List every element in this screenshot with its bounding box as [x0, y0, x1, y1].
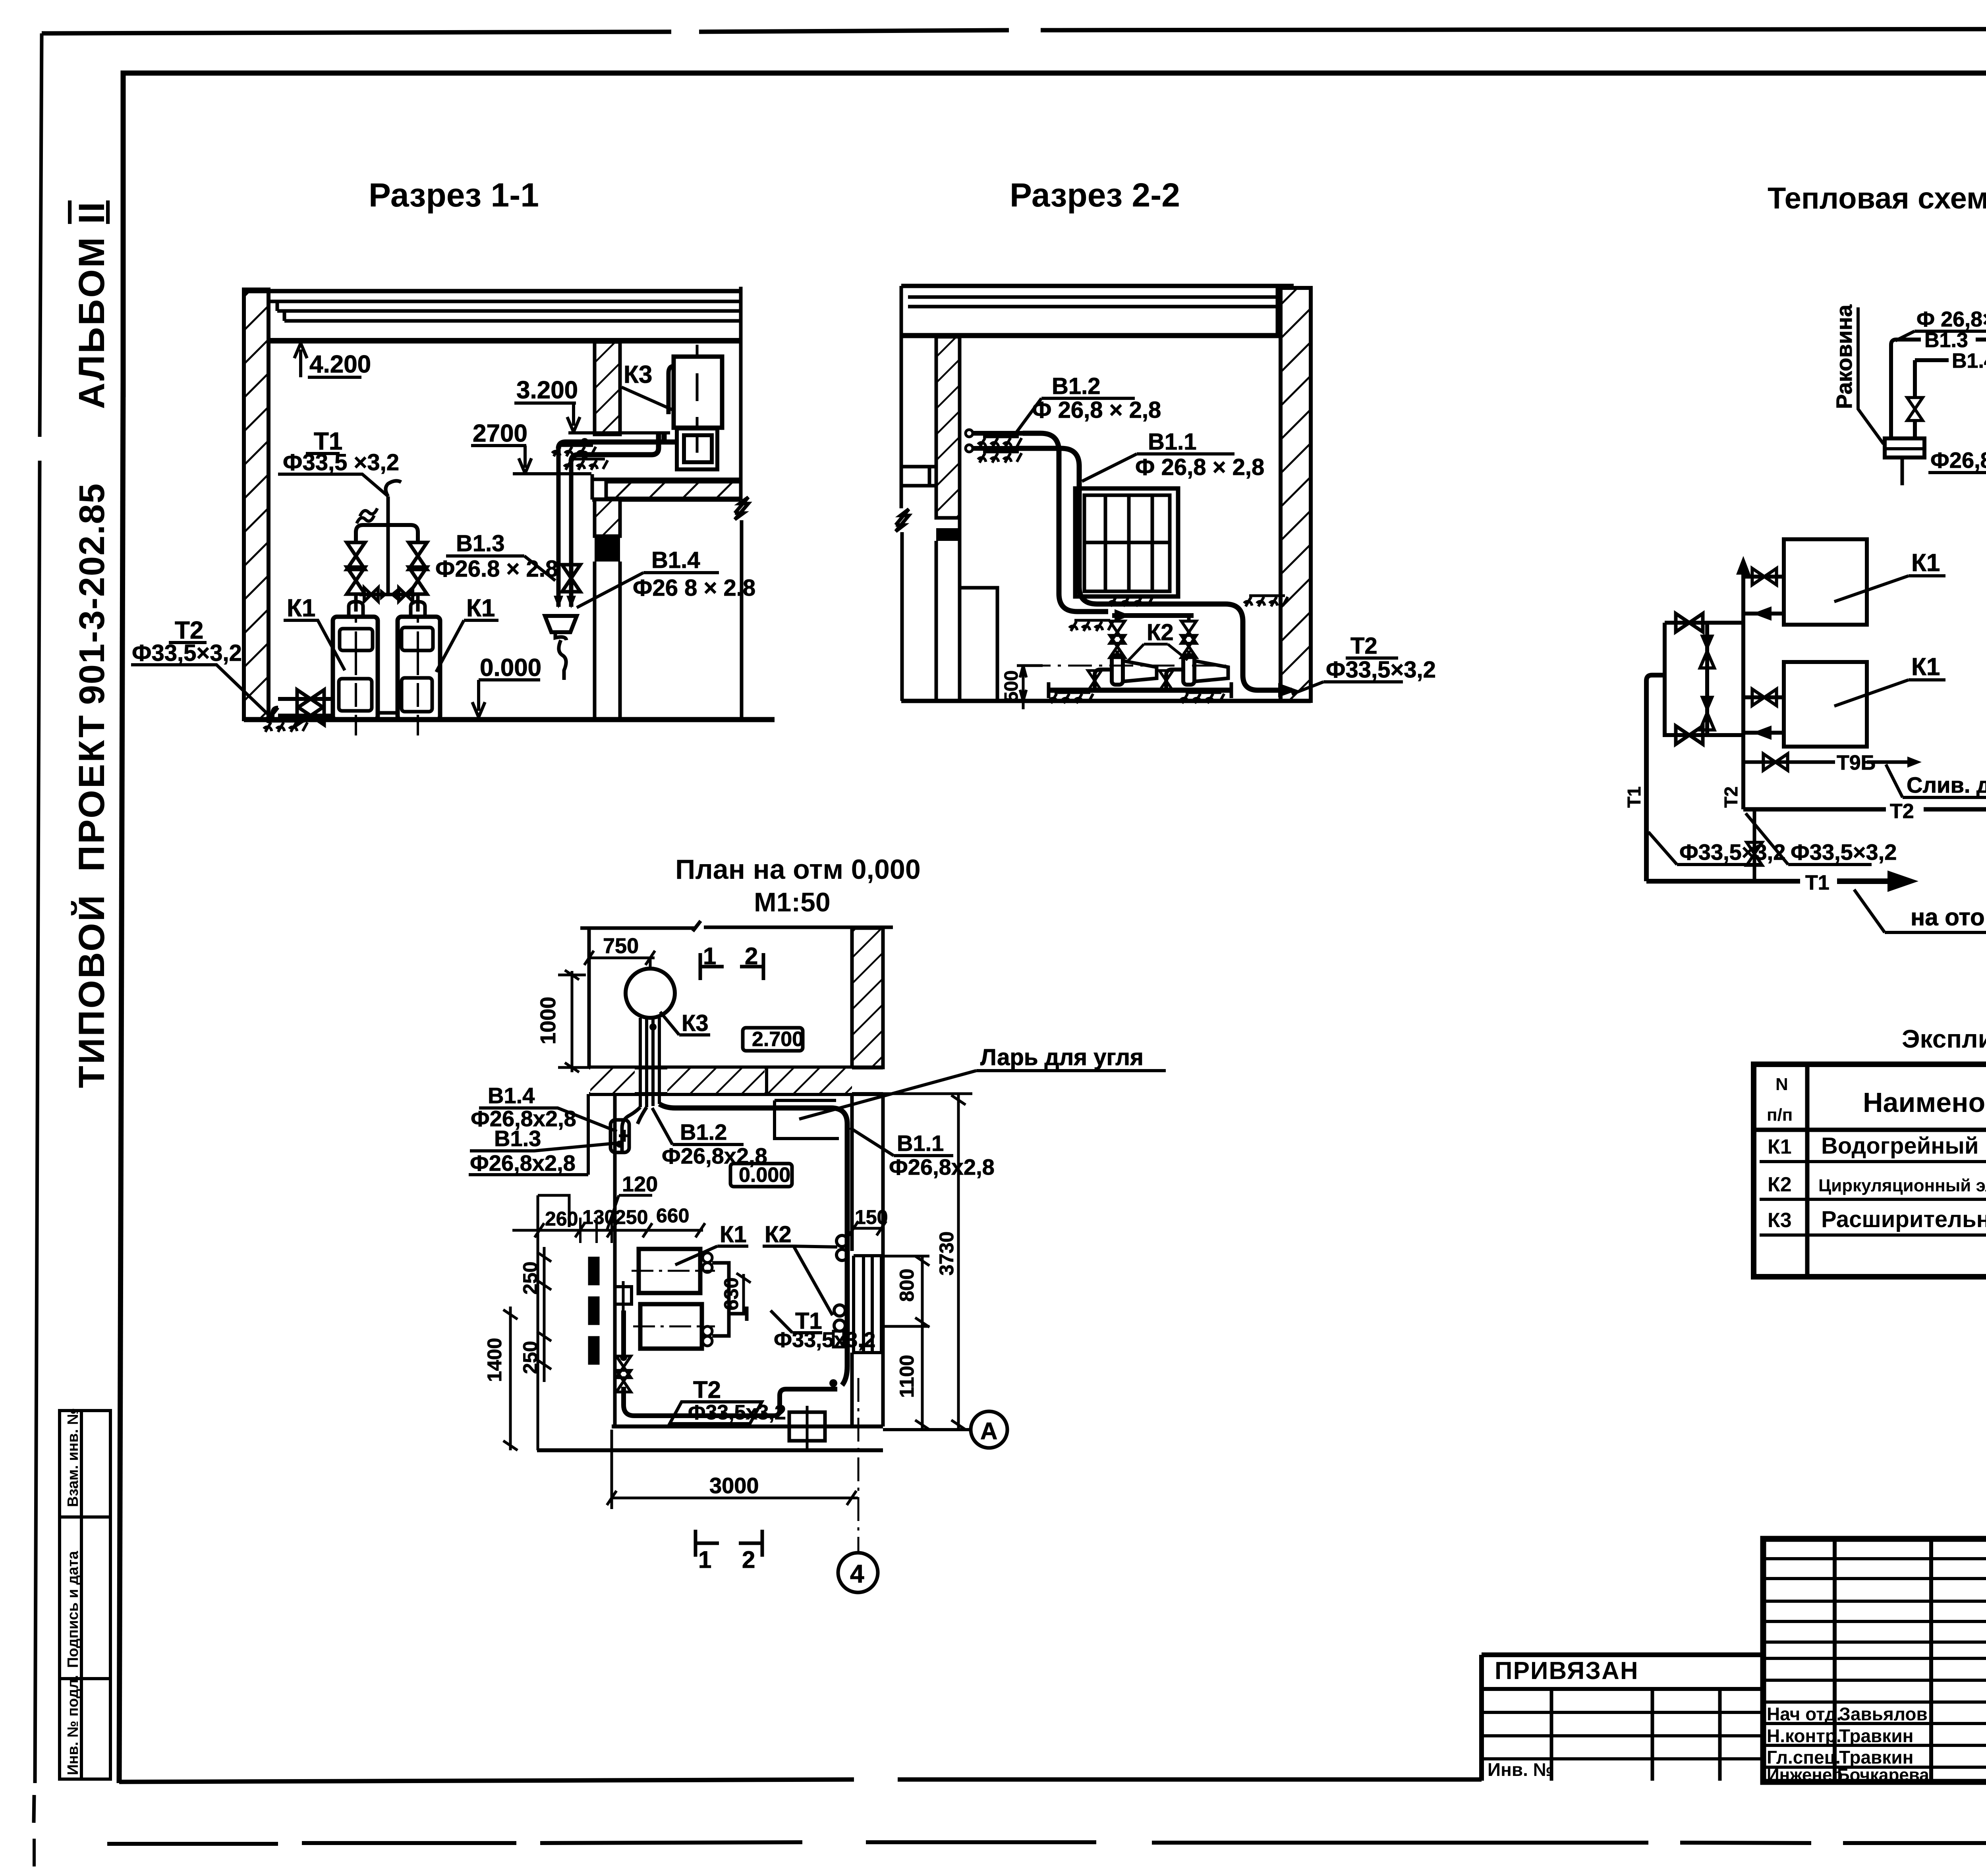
outer border bottom dashed: [107, 1842, 1986, 1844]
svg-text:Раковина: Раковина: [1831, 304, 1857, 409]
cross line with arrow fittings: [359, 593, 415, 596]
svg-text:660: 660: [656, 1204, 689, 1227]
svg-text:на отопление см. черт. ОВ: на отопление см. черт. ОВ: [1911, 904, 1986, 930]
svg-text:В1.2: В1.2: [1052, 373, 1101, 399]
svg-text:Ф33,5 ×3,2: Ф33,5 ×3,2: [283, 450, 399, 475]
svg-text:800: 800: [896, 1269, 918, 1302]
svg-text:Разрез 2-2: Разрез 2-2: [1010, 176, 1180, 214]
coal box: [775, 1100, 839, 1139]
svg-text:К1: К1: [1911, 653, 1940, 681]
svg-text:Т2: Т2: [1350, 633, 1377, 659]
svg-text:К3: К3: [1768, 1209, 1792, 1232]
left column hatch + black: [936, 337, 960, 518]
svg-text:0.000: 0.000: [480, 654, 541, 681]
boilers: [1784, 539, 1867, 625]
main loop pipe B1.1: [659, 1104, 847, 1385]
svg-text:750: 750: [603, 934, 639, 958]
svg-text:А: А: [980, 1418, 997, 1444]
fundament blocks: [588, 1257, 599, 1285]
svg-text:250: 250: [615, 1206, 648, 1228]
inner frame bottom: [119, 1779, 1482, 1782]
horizontal hatched wall band: [589, 1067, 883, 1094]
svg-text:Ф33,5×3,2: Ф33,5×3,2: [132, 640, 242, 666]
upper room left wall line: [587, 928, 591, 1067]
small stamp table bottom left: [60, 1411, 110, 1779]
svg-text:Ф26,8х2,8: Ф26,8х2,8: [470, 1150, 576, 1175]
svg-text:Ларь для угля: Ларь для угля: [980, 1044, 1144, 1070]
svg-text:1000: 1000: [536, 997, 560, 1044]
svg-text:Нач отд.: Нач отд.: [1767, 1704, 1841, 1724]
svg-text:п/п: п/п: [1767, 1105, 1793, 1125]
svg-text:К1: К1: [1911, 549, 1940, 577]
svg-text:1400: 1400: [483, 1338, 506, 1382]
bottom wall: [612, 1424, 883, 1428]
svg-text:Инженер: Инженер: [1767, 1765, 1843, 1785]
B1.1 pipe run: [1018, 448, 1292, 690]
lower column hatch + black band: [595, 500, 620, 536]
right wall hatched: [1281, 288, 1311, 701]
pump 2: [1183, 655, 1194, 685]
svg-text:Ф33,5х3,2: Ф33,5х3,2: [774, 1328, 875, 1352]
sink in plan: [610, 1120, 629, 1152]
svg-text:3000: 3000: [709, 1473, 759, 1498]
svg-text:К2: К2: [1768, 1173, 1792, 1196]
svg-text:Т9Б: Т9Б: [1837, 751, 1876, 774]
left wall hatched: [244, 290, 269, 719]
svg-text:Тепловая схема котельной: Тепловая схема котельной: [1768, 181, 1986, 215]
svg-text:ПРИВЯЗАН: ПРИВЯЗАН: [1495, 1657, 1639, 1685]
pipe B1.1 stub: [966, 445, 973, 452]
inner frame: [123, 73, 1986, 397]
2.700 box: [743, 1028, 803, 1051]
svg-text:1: 1: [703, 943, 716, 969]
boiler 1 plan: [639, 1249, 700, 1293]
risers B1.3 B1.4 down to funnel: [556, 449, 561, 607]
svg-text:2700: 2700: [473, 420, 527, 447]
svg-text:В1.1: В1.1: [1148, 429, 1197, 455]
svg-text:Т2: Т2: [693, 1376, 721, 1403]
svg-text:В1.3: В1.3: [494, 1126, 541, 1151]
sink risers: [1891, 340, 1986, 438]
box below tank: [677, 428, 717, 469]
svg-text:Наименование: Наименование: [1863, 1087, 1986, 1118]
boiler 1 connections: [1743, 575, 1784, 579]
drain box on bottom wall: [789, 1412, 825, 1441]
table grid: [1754, 1064, 1986, 1277]
svg-text:Ф 26,8 × 2,8: Ф 26,8 × 2,8: [1135, 454, 1264, 480]
svg-text:К3: К3: [624, 361, 652, 388]
B1.2 pipe run: [1023, 433, 1108, 612]
svg-text:Ф26,8х2,8: Ф26,8х2,8: [889, 1154, 995, 1179]
svg-text:М1:50: М1:50: [754, 887, 831, 917]
svg-text:0.000: 0.000: [739, 1164, 790, 1187]
svg-text:Травкин: Травкин: [1839, 1747, 1913, 1768]
svg-text:К1: К1: [720, 1222, 747, 1247]
left pipe with valves down to bottom run: [624, 1310, 837, 1416]
ceiling slab: [901, 284, 1294, 288]
svg-text:Ф26,8×2,8: Ф26,8×2,8: [1930, 448, 1986, 473]
svg-text:Ф 26,8 × 2,8: Ф 26,8 × 2,8: [1032, 397, 1161, 423]
window: [1075, 488, 1178, 596]
svg-text:2: 2: [745, 943, 758, 969]
left grid rows: [1763, 1557, 1986, 1560]
left grid verticals: [1833, 1539, 1837, 1782]
svg-text:Слив. дренаж Ф268×28: Слив. дренаж Ф268×28: [1907, 772, 1986, 797]
long T2 line: [1743, 807, 1986, 812]
floor lines: [901, 699, 1311, 703]
svg-text:Экспликация оборудования: Экспликация оборудования: [1902, 1025, 1986, 1053]
K3 tank circle: [626, 969, 675, 1018]
outer border bottom-left dash: [33, 1839, 36, 1866]
pump circles on riser: [837, 1235, 848, 1247]
svg-text:1: 1: [698, 1546, 711, 1573]
upper hatched column: [595, 342, 620, 434]
svg-text:К1: К1: [1768, 1135, 1792, 1158]
svg-text:К2: К2: [1147, 620, 1174, 645]
T1 bottom line: [1646, 879, 1800, 884]
funnel + trap: [545, 616, 577, 632]
svg-text:Ф33,5×3,2: Ф33,5×3,2: [1326, 657, 1436, 683]
floor line: [244, 717, 775, 722]
riser valves: [347, 542, 365, 569]
window in right wall: [854, 1256, 881, 1353]
svg-text:К1: К1: [466, 594, 495, 622]
svg-text:Разрез 1-1: Разрез 1-1: [369, 176, 539, 214]
room left wall line: [613, 1094, 617, 1426]
ceiling slab lines: [244, 289, 741, 293]
small connection box left of boiler2: [615, 1287, 632, 1304]
T1 riser hook: [386, 481, 401, 525]
outer border left: [34, 33, 42, 1823]
base line: [1049, 688, 1231, 693]
suction manifold: [1112, 613, 1194, 618]
svg-text:N: N: [1775, 1075, 1788, 1094]
svg-text:Н.контр.: Н.контр.: [1767, 1725, 1841, 1746]
tank pipes through wall: [640, 1018, 659, 1107]
valve vertical between T2 and T1 lines: [1753, 809, 1756, 881]
box at floor: [960, 588, 997, 701]
0.000 box: [730, 1164, 792, 1187]
svg-text:План на отм 0,000: План на отм 0,000: [675, 854, 921, 885]
axis 4: [858, 1378, 860, 1552]
svg-text:901-3-202.85: 901-3-202.85: [72, 483, 112, 705]
pump 1: [1112, 655, 1123, 685]
centerline: [1027, 665, 1229, 667]
sink: [1885, 438, 1924, 457]
svg-text:В1.4: В1.4: [488, 1083, 535, 1108]
outer border top: [42, 28, 1986, 33]
Т9Б drain line: [1743, 760, 1911, 764]
room walls below band: [852, 1094, 883, 1426]
fan from tank pipes to sink: [622, 1107, 647, 1152]
pipes at 2700 level to tank: [558, 433, 677, 449]
svg-text:В1.4: В1.4: [1952, 349, 1986, 372]
svg-text:Ф26 8 × 2.8: Ф26 8 × 2.8: [633, 575, 755, 601]
svg-text:Гл.спец.: Гл.спец.: [1767, 1747, 1841, 1768]
privyazan table: [1482, 1655, 1763, 1781]
svg-text:Ф33,5х3,2: Ф33,5х3,2: [688, 1401, 786, 1424]
manifold bus over boilers: [356, 525, 418, 544]
svg-text:Циркуляционный электронасос: Циркуляционный электронасос: [1818, 1176, 1986, 1195]
svg-text:Т1: Т1: [1624, 786, 1644, 808]
B1.4 line: [1915, 358, 1986, 362]
check arrows: [554, 596, 576, 608]
svg-text:Водогрейный котел: Водогрейный котел: [1821, 1133, 1986, 1159]
pipe B1.2 stub: [966, 430, 973, 437]
svg-text:Инв. №: Инв. №: [1488, 1759, 1553, 1780]
svg-text:ТИПОВОЙ: ТИПОВОЙ: [71, 894, 112, 1088]
svg-text:Инв. № подл.: Инв. № подл.: [65, 1675, 81, 1775]
svg-text:В1.4: В1.4: [651, 547, 700, 573]
3000 dim: [607, 1430, 858, 1509]
left wall pipes T2: [272, 708, 278, 720]
return header riser: [1741, 572, 1745, 809]
left slab: [901, 467, 936, 486]
svg-text:630: 630: [720, 1278, 742, 1310]
svg-text:В1.2: В1.2: [680, 1119, 727, 1145]
svg-text:Подпись и дата: Подпись и дата: [65, 1551, 81, 1668]
top cut line with break: [580, 921, 893, 931]
svg-text:ПРОЕКТ: ПРОЕКТ: [71, 714, 112, 872]
svg-text:К3: К3: [682, 1010, 709, 1036]
T1 riser: [1646, 675, 1665, 881]
upper right hatched wall: [852, 928, 883, 1067]
svg-text:500: 500: [1001, 670, 1022, 702]
axis A: [883, 1428, 971, 1431]
svg-text:2: 2: [742, 1546, 755, 1573]
bypass loop: [1665, 623, 1743, 735]
svg-text:Т1: Т1: [1805, 871, 1830, 894]
svg-text:Бочкарева: Бочкарева: [1837, 1765, 1929, 1785]
svg-text:К1: К1: [287, 594, 315, 622]
zigzag symbol: [357, 508, 377, 523]
section marks bottom: [695, 1530, 719, 1557]
svg-text:АЛЬБОМ II: АЛЬБОМ II: [71, 201, 112, 409]
svg-text:Т2: Т2: [1721, 786, 1741, 808]
svg-text:К2: К2: [765, 1222, 792, 1247]
svg-text:Ф 26,8×2,8: Ф 26,8×2,8: [1916, 307, 1986, 331]
svg-text:260: 260: [545, 1208, 578, 1230]
svg-text:Расширительный бак: Расширительный бак: [1821, 1206, 1986, 1232]
svg-text:2.700: 2.700: [752, 1028, 804, 1051]
mezzanine slab: [592, 478, 741, 481]
section marks top: [700, 953, 724, 980]
boiler 2 plan: [640, 1304, 702, 1349]
svg-text:1100: 1100: [896, 1355, 918, 1398]
svg-text:3730: 3730: [935, 1231, 958, 1276]
valve on riser B1.4: [562, 565, 580, 592]
svg-text:120: 120: [622, 1172, 658, 1196]
500 dim: [1017, 666, 1043, 709]
svg-text:Ф33,5×3,2: Ф33,5×3,2: [1791, 840, 1897, 865]
tank feed pipe: [668, 366, 674, 414]
svg-text:4: 4: [850, 1559, 864, 1588]
svg-text:4.200: 4.200: [309, 351, 371, 378]
svg-text:3.200: 3.200: [516, 376, 578, 404]
boiler 2: [398, 617, 440, 720]
boiler 1: [333, 617, 378, 720]
right boundary with break: [735, 287, 748, 720]
left boundary with break: [896, 286, 909, 701]
svg-text:Завьялов: Завьялов: [1839, 1704, 1928, 1724]
main block outline: [1763, 1539, 1986, 1782]
svg-text:В1.1: В1.1: [897, 1131, 944, 1156]
svg-text:Травкин: Травкин: [1839, 1725, 1913, 1746]
svg-text:Взам. инв. №: Взам. инв. №: [65, 1408, 81, 1507]
svg-text:В1.3: В1.3: [456, 531, 505, 556]
svg-text:130: 130: [582, 1206, 615, 1228]
boiler connection circles + header: [703, 1253, 712, 1262]
boiler 2 connections: [1743, 695, 1784, 699]
svg-text:Т2: Т2: [1890, 800, 1914, 823]
